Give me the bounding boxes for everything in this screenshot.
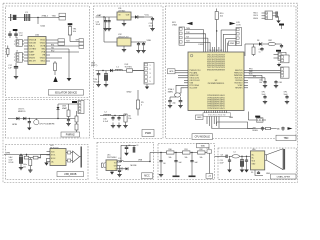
U2 right pin stubs [244,69,248,71]
GPS label box left [168,69,176,74]
wires J6 to MCU bus [221,29,236,31]
wire top rail F [121,144,136,146]
svg-text:GND: GND [127,92,132,94]
svg-text:U1A: U1A [41,25,46,28]
VCC tag bar top right [279,24,284,26]
resistor R32 [198,151,206,154]
ground under C60 [20,164,22,168]
off-page box C10 [207,150,212,153]
diode CR1 [16,117,19,120]
svg-text:+BAT: +BAT [96,14,102,17]
ground under C61 [124,153,129,156]
section box: isolator device [6,6,90,98]
ferrite L4 oval [232,155,240,158]
ground under C50 [27,128,31,131]
wire to U12 input [103,17,105,42]
wire TR1 to GP header [69,35,71,42]
speaker cone outline [267,149,284,170]
svg-text:10k: 10k [200,157,203,159]
wire input rail D section [8,118,78,120]
top right aux IC U13 [265,11,273,20]
diode CR2 [23,117,26,120]
U2 bottom label strip [203,113,231,117]
speaker bar [283,149,285,170]
ground U13 [278,16,280,20]
svg-text:GND: GND [230,43,235,45]
svg-text:PWRIN2: PWRIN2 [66,134,76,136]
ground under C64 [119,173,121,175]
section box: aux regulator [97,142,154,179]
U10 pin stubs [24,39,28,41]
svg-text:TBD: TBD [284,137,289,140]
svg-text:TX1: TX1 [51,47,54,49]
grounds under C20 C21 [98,78,100,85]
svg-text:VBAT: VBAT [62,107,68,110]
svg-text:LAN: LAN [229,116,233,119]
ground under C14 [105,25,107,28]
svg-text:2: 2 [14,44,15,46]
connector J3 3-pos [16,53,22,63]
svg-text:1: 1 [150,65,151,67]
amplifier triangle [73,151,80,163]
capacitor C46 [275,80,277,82]
capacitor C40 [169,97,171,101]
label box GND bottom [196,115,204,120]
regulator U11 LM7805 [117,12,131,20]
svg-text:TXD: TXD [52,15,57,17]
svg-text:1u: 1u [259,51,261,53]
wires GPS to U2 [175,69,184,71]
svg-text:GND2: GND2 [40,43,45,45]
inductor L3 [118,161,124,162]
U14 left pin stubs [47,151,51,153]
svg-text:FB2: FB2 [269,40,272,42]
svg-text:(BATT): (BATT) [91,64,98,67]
piezo bar [81,147,82,168]
VCC tag for C10 C11 [13,29,18,31]
ground bottom right [67,78,72,81]
connector J10 right [281,67,290,78]
svg-text:10k: 10k [220,16,223,18]
capacitor C41 [180,97,182,101]
svg-text:MCC: MCC [144,175,150,178]
wire audio input [215,155,227,157]
ground under C70 [160,164,162,175]
capacitor C42b right of U13 [274,15,277,17]
capacitor C84 [258,171,260,172]
jumper cluster below U2 right [247,112,249,121]
wires J5 to MCU bus [185,29,204,31]
svg-text:1: 1 [14,41,15,43]
USB bridge U14 [50,149,66,166]
ground under C51 [68,121,70,124]
svg-text:+10: +10 [208,176,211,178]
section box: CPU [166,6,297,139]
svg-text:USB_MINIB: USB_MINIB [64,174,77,176]
svg-text:R31: R31 [184,149,187,151]
svg-text:INA+/C: INA+/C [29,45,36,48]
polarized capacitor C21 [105,71,107,74]
svg-text:R2: R2 [39,158,41,160]
diode D2 on rail [110,69,113,72]
wire XTAL net [8,17,57,19]
wire into J4 [133,70,145,72]
svg-text:PWR: PWR [145,131,151,135]
svg-text:MCP2200: MCP2200 [50,147,58,149]
tag arrow J6 [230,22,236,25]
svg-text:CPU MODULE: CPU MODULE [195,136,211,138]
U13 wires [262,12,266,14]
svg-text:J3: J3 [16,51,18,53]
wire node3 [205,152,208,154]
wire input rail E [4,154,50,156]
svg-text:10k: 10k [169,157,172,159]
capacitor C61 [126,145,128,147]
svg-text:C2: C2 [128,145,130,147]
resistor R31 [183,151,191,154]
svg-text:MODE: MODE [131,165,138,167]
diode CR3 vertical branch [57,118,58,119]
capacitor C10 [9,31,11,34]
inductor L1 [115,69,123,70]
connector J2 2-pos [16,40,22,47]
svg-text:10uF: 10uF [149,25,154,27]
label TeflD on border [197,144,210,148]
wire down to out box [208,153,210,173]
regulator U12 LM1117 [117,38,131,46]
svg-text:VOA: VOA [41,51,46,54]
svg-text:5: 5 [150,81,151,83]
crystal Y1 [10,14,12,21]
label box MCC [142,173,153,179]
svg-text:VDD2: VDD2 [40,40,45,42]
connector J4 power [144,63,154,85]
inductor L2 [104,114,112,115]
MCU top pin bundle wires [203,30,205,53]
svg-text:R30: R30 [168,149,171,151]
capacitor C16 [143,42,145,44]
U15 right stubs [117,161,121,163]
svg-text:VSB: VSB [138,160,143,162]
wires U2 right rows to J9 J10 [248,69,281,71]
svg-text:PB7234BU: PB7234BU [107,157,117,159]
wire triangle to piezo [80,156,81,158]
diode D4 [121,168,126,170]
svg-text:2: 2 [150,69,151,71]
svg-text:10n: 10n [259,82,262,84]
capacitor C13 out [152,17,154,19]
svg-text:LM1117-3.3: LM1117-3.3 [118,37,129,39]
svg-text:VOB/F: VOB/F [29,55,36,57]
svg-text:VCC: VCC [145,15,150,17]
resistor R12 small [266,127,271,129]
svg-text:10k: 10k [185,157,188,159]
J4 pin1 ground [146,84,148,87]
resistor TR1 pullup [68,23,73,25]
wires U10 right rows to connector GP [50,45,79,47]
capacitor C72 [191,153,193,161]
svg-text:CHAN_SPKR: CHAN_SPKR [277,175,291,178]
U15 left stubs [102,162,104,164]
svg-text:OSC0: OSC0 [253,15,258,17]
svg-text:GPIB: GPIB [12,124,17,126]
svg-text:RF0/RF1: RF0/RF1 [235,88,242,90]
ground under C13 [152,21,154,28]
wire feedback run [255,174,263,176]
svg-text:GND/G: GND/G [29,58,36,60]
svg-text:D5: D5 [251,172,253,174]
wire riser to top rail F [120,145,122,162]
wire up to G section [149,153,151,162]
wire ladder input [158,152,167,154]
svg-text:TeflD: TeflD [200,145,205,147]
resistor R6 [124,114,127,122]
svg-text:VPB: VPB [6,152,11,154]
svg-text:UP1 POULINE/PB: UP1 POULINE/PB [40,124,56,126]
U12 ground pin [123,46,125,50]
test point TP1 [59,13,66,16]
VCC arrow under R3 [53,77,58,83]
power row diode D3 [245,43,259,45]
grounds LC filter [112,123,114,126]
polarized capacitor C60 [20,154,21,155]
svg-text:GND: GND [197,117,202,119]
capacitor C12 [15,63,17,67]
audio amplifier U16 [251,151,265,170]
regulator U15 [103,163,108,168]
ground under C82 [241,167,243,170]
label box ISOLATOR DEVICE [48,90,83,95]
svg-text:LM7805: LM7805 [118,11,126,13]
capacitor C42 right of U13 [274,12,277,14]
svg-text:C8: C8 [221,154,223,156]
svg-text:CON: CON [236,24,241,26]
capacitor C31 [118,116,120,118]
resistor R21 vertical [29,159,32,165]
svg-text:SCL1/INT: SCL1/INT [190,88,199,90]
capacitor C44 [261,47,263,49]
svg-text:U16: U16 [252,149,255,151]
svg-text:100uF: 100uF [94,82,100,84]
wire bottom run to TA5 [217,122,277,129]
section box: power supply [94,6,164,139]
label box USB_MINIB [57,172,84,177]
grounds under C45 C46 [264,84,266,87]
wire after C80 [229,155,232,157]
U11 output wire [131,16,144,18]
wires into J8 [274,54,279,56]
wire node2 [190,152,198,154]
grounds under C15 C16 [138,46,140,50]
capacitor C50 [28,119,30,122]
ground between connectors [278,63,280,65]
label box out arrow [206,174,213,179]
capacitor C11 [15,31,17,34]
svg-text:10uF: 10uF [96,24,101,26]
wire rows down to caps [261,75,263,81]
capacitor C30 [112,116,114,118]
wire LC filter rail [100,115,126,117]
svg-text:IN+: IN+ [252,155,255,157]
svg-text:JTAG: JTAG [172,23,177,26]
node XTAL junction [37,17,38,18]
svg-text:B0: B0 [164,163,166,165]
svg-text:VDD1/B: VDD1/B [29,43,37,45]
wire J11 down [76,111,78,113]
wire to J11 [58,103,78,105]
ground under C12 [15,71,17,77]
svg-text:GND2: GND2 [40,58,45,60]
U2 pin1 marker [190,54,193,57]
polarized cap C82 [241,156,243,159]
wire from power row down [244,44,246,56]
connector J5 JTAG [179,27,185,45]
wire R10 down to bus [216,20,218,32]
tag arrow PWR [72,101,77,103]
capacitor C62 polarized [133,145,135,147]
svg-text:RX2: RX2 [51,50,54,52]
resistor R11 [252,47,255,55]
capacitor C83 shunt [246,156,247,157]
svg-text:OUTA: OUTA [40,45,46,48]
wire battery input rail [96,70,145,72]
svg-text:GND: GND [266,173,271,175]
wires J2 J3 to U10 [22,40,24,42]
svg-text:8MHz: 8MHz [168,92,173,94]
capacitor C70 input [160,152,161,153]
connector J9 right [281,55,290,63]
U11 ground pin [123,20,125,24]
U16 bottom feedback [254,170,256,174]
tag arrow J5 [187,22,193,25]
vertical wire to ground [68,49,70,78]
svg-text:1 2 3 4 5 6 7 8 9 0 1 2: 1 2 3 4 5 6 7 8 9 0 1 2 [207,50,223,52]
svg-text:SEL2: SEL2 [40,61,45,63]
svg-text:C3: C3 [121,167,123,169]
svg-text:R32: R32 [199,149,202,151]
capacitor C64 shunt [119,169,121,171]
svg-text:1: 1 [14,54,15,56]
capacitor C14b input [108,17,110,21]
svg-text:4: 4 [150,77,151,79]
capacitor C81 shunt [229,156,231,160]
capacitor C51 [68,119,70,120]
capacitor C48 [282,127,284,128]
ground under C81 [229,164,231,170]
label box GND small [229,41,236,46]
svg-text:BKMG: BKMG [253,130,259,132]
svg-text:22p: 22p [173,103,176,105]
svg-text:GND1/A: GND1/A [29,39,37,42]
resistor R30 [167,151,175,154]
section box: power input [6,100,90,139]
label box TBD [276,135,296,140]
resistor R3 on U10 output [54,61,56,63]
wire to U16 [240,155,251,157]
header GP test points [79,39,84,42]
svg-text:D3: D3 [257,40,259,42]
svg-text:TE-PGR1: TE-PGR1 [125,66,132,68]
ground under C72 black [189,176,196,178]
svg-text:8R8C8S8T8U8V8W8X: 8R8C8S8T8U8V8W8X [207,69,226,71]
wires U10 right to test points [50,39,58,41]
section box: USB bridge [6,144,89,179]
ground left of U14 [46,158,48,162]
capacitor C80 series [225,155,227,157]
label box CPU MODULE [192,134,213,140]
U2 bottom pin stubs [204,111,206,114]
svg-text:C46: C46 [279,82,282,84]
resistor R20 series [26,154,27,155]
svg-text:7P7M7D7E7F7G7H7J: 7P7M7D7E7F7G7H7J [207,108,225,110]
svg-text:0.1uF: 0.1uF [103,121,109,123]
resistor stack R16 R17 [75,116,78,122]
svg-text:GPS: GPS [169,71,174,73]
transistor Q1 [34,120,39,125]
svg-text:OUTB/D: OUTB/D [29,49,37,51]
svg-text:VIA/E: VIA/E [29,51,35,54]
connector J6 LCD [236,28,242,46]
svg-text:SEL1/H: SEL1/H [29,61,36,63]
ground under R21 [29,166,31,170]
svg-text:2: 2 [14,57,15,59]
svg-text:XTAL1: XTAL1 [42,14,49,17]
capacitor C45 [264,78,266,82]
capacitor C15 [138,42,140,44]
svg-text:KOLB: KOLB [9,162,15,164]
U14 right stubs and boxes [66,152,68,154]
svg-text:TA5: TA5 [277,127,280,130]
U12 output wire [131,41,146,43]
U2 bottom wires down [206,116,208,124]
svg-text:3: 3 [150,73,151,75]
label box PWRIN2 [61,132,80,137]
svg-text:10k: 10k [73,31,76,33]
ferrite FB2 oval [268,42,276,45]
grounds under crystal caps [169,105,171,106]
crystal X1 oval [175,93,181,97]
svg-text:TDO: TDO [186,41,190,43]
ground under U15 [111,171,113,172]
svg-text:TBD1: TBD1 [253,12,258,14]
svg-text:3: 3 [14,60,15,62]
diode D1 [135,15,138,18]
svg-text:TDI: TDI [186,36,189,38]
svg-text:C3: C3 [136,145,138,147]
resistor R22 [33,156,38,159]
section box: RC filter ladder [158,144,215,180]
svg-text:GND0: GND0 [253,18,258,20]
svg-text:L3: L3 [119,158,121,160]
svg-text:10k: 10k [23,167,26,169]
wires into triangle [71,152,73,154]
capacitor C47 [262,127,264,128]
capacitor C1 series pair [24,14,26,21]
microcontroller U2 PIC32 [188,52,244,111]
wire +BAT to U11 input [96,16,118,18]
svg-text:10k: 10k [128,118,131,120]
wires crystal to U2 [176,85,184,93]
crystal Y2 left edge [7,49,9,55]
resistor R15 [67,110,70,117]
resistor R5 [137,90,139,100]
svg-text:INB-: INB- [41,49,45,51]
wire R22 to rail [38,155,50,158]
capacitor C43 [281,44,283,46]
wire node1 [174,152,183,154]
tag arrow TA5 out [288,127,293,130]
U2 left pin stubs [184,69,188,71]
